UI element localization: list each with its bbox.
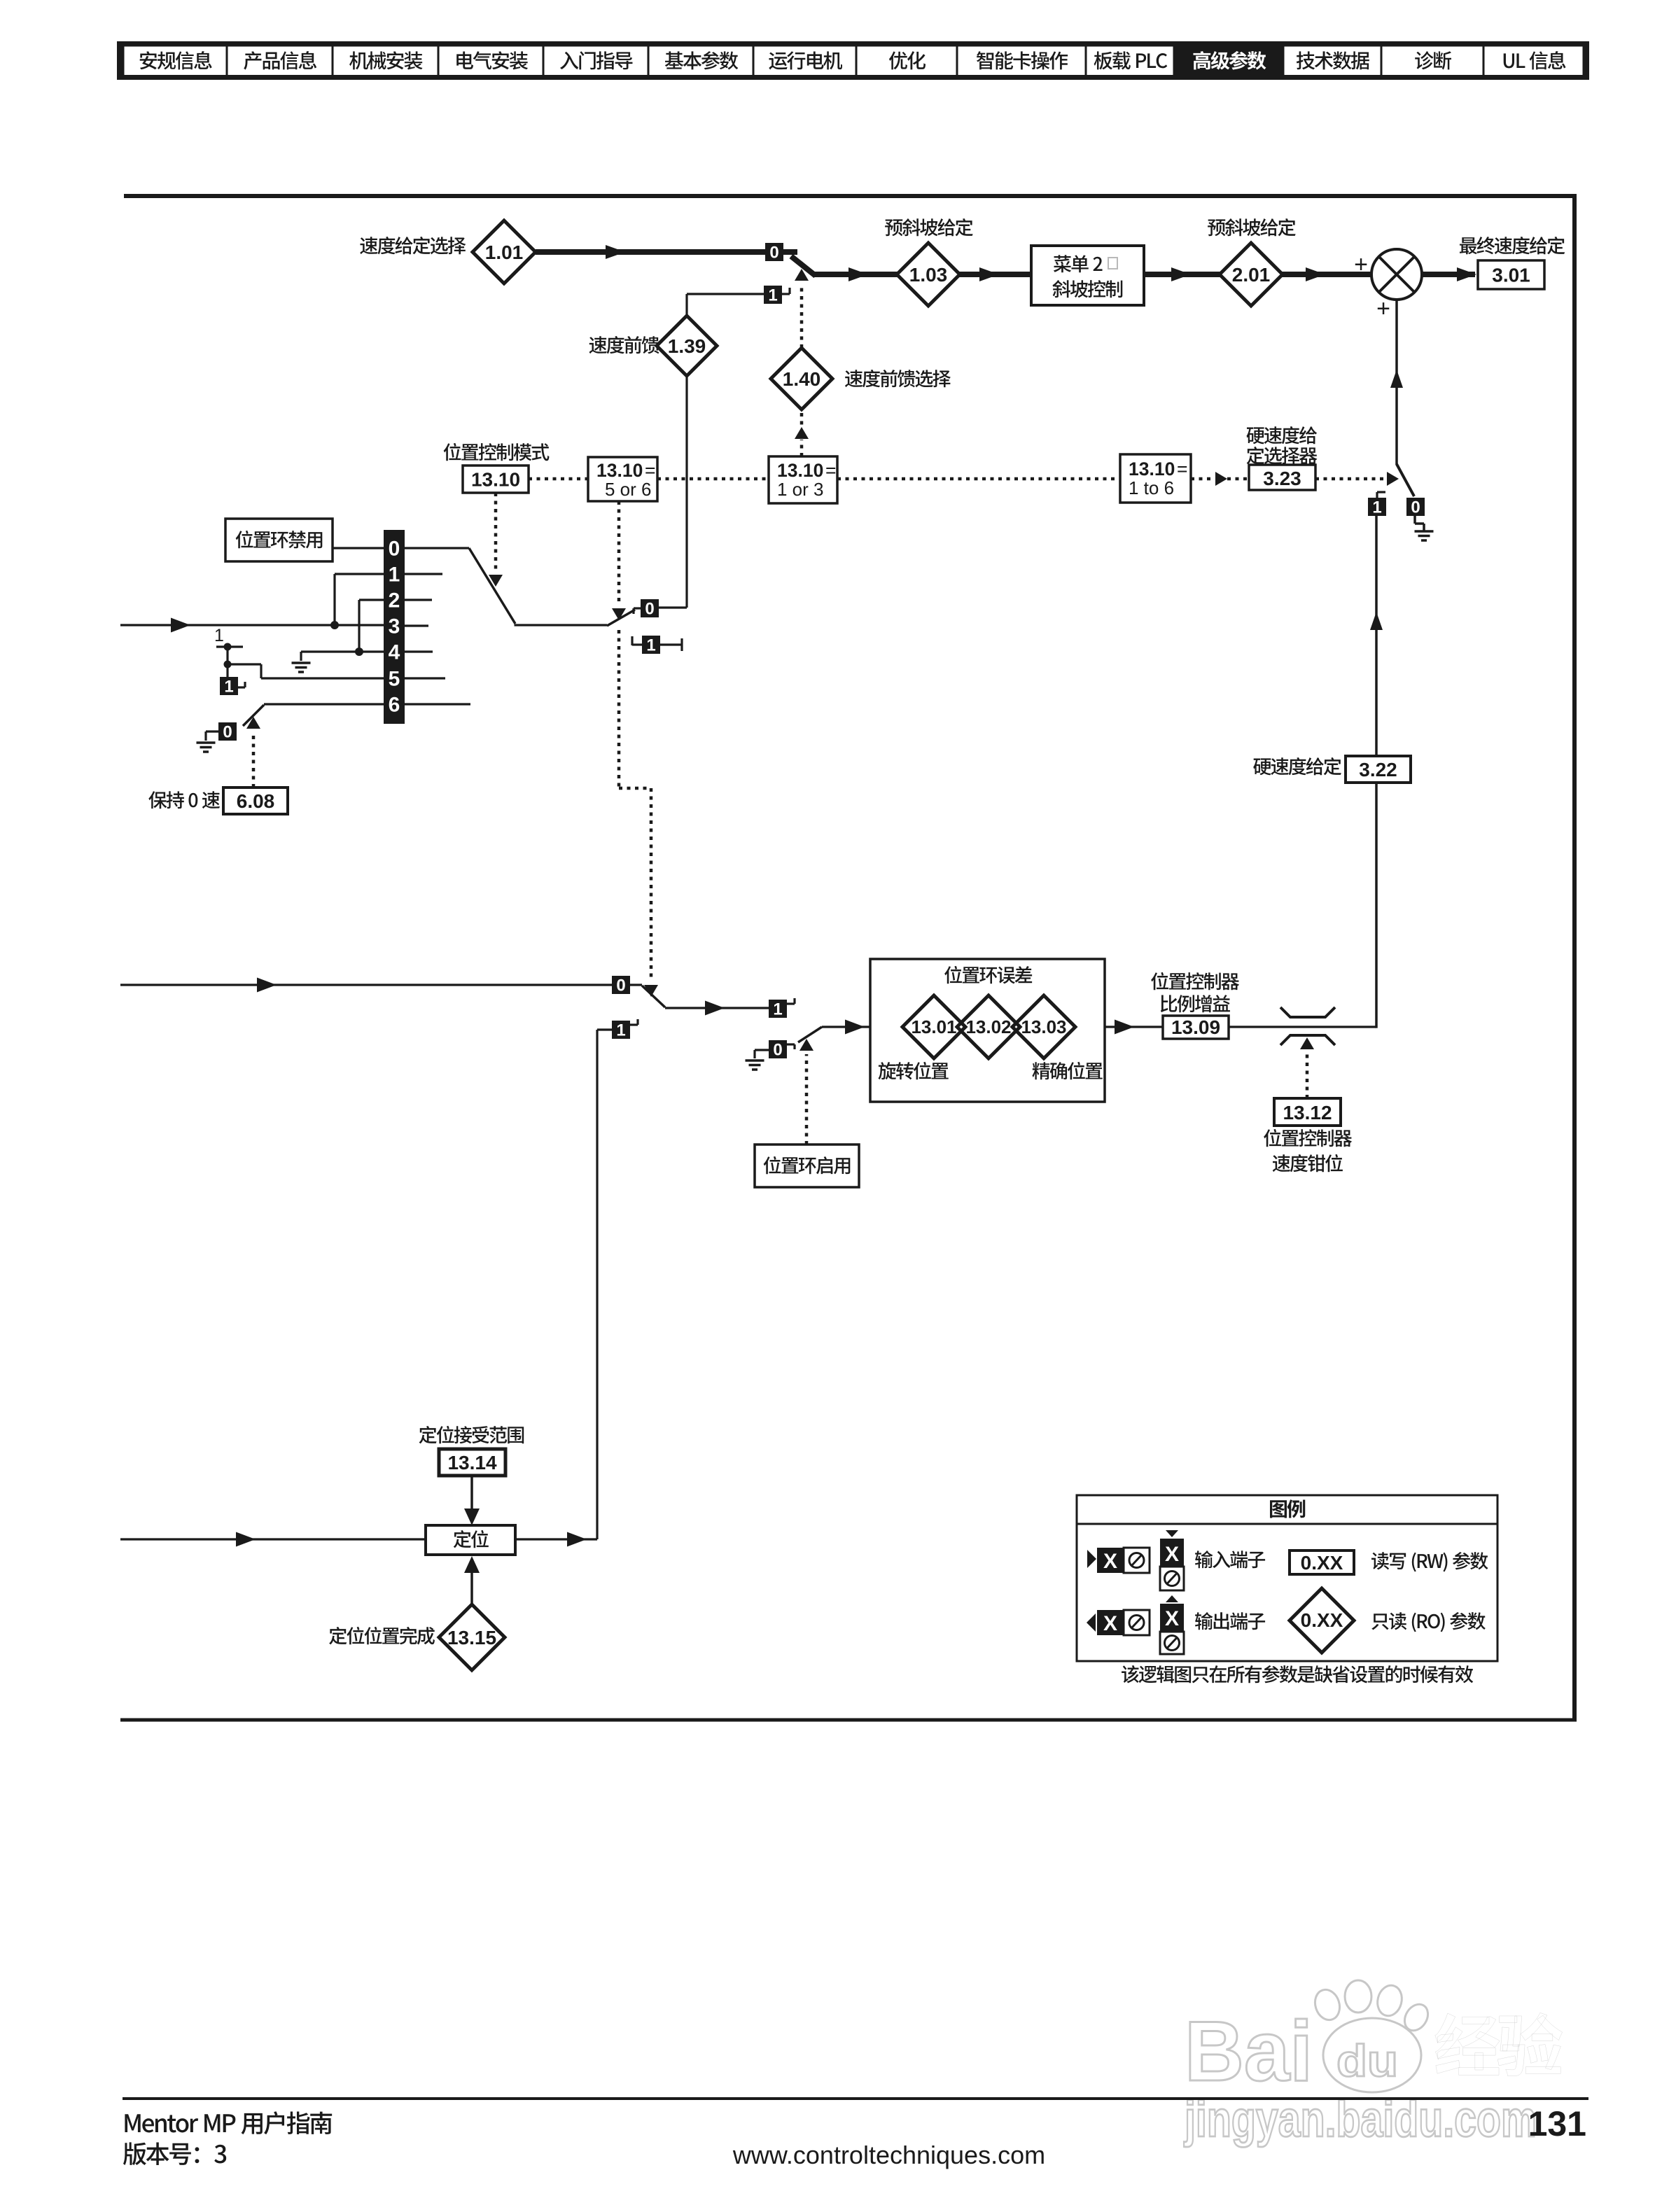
legend note [1122, 1665, 1139, 1683]
svg-text:13.12: 13.12 [1283, 1102, 1332, 1123]
svg-text:1: 1 [389, 563, 400, 587]
svg-text:13.15: 13.15 [447, 1627, 496, 1648]
legend 0.XX RO diamond [1290, 1588, 1354, 1653]
baidu watermark [1183, 1980, 1562, 2148]
dotted 1to6 to 3.23 [1191, 477, 1212, 481]
main input wire (row 3) [120, 624, 384, 626]
box 13.10 = 5 or 6 [588, 457, 657, 501]
svg-text:13.01: 13.01 [911, 1016, 956, 1037]
wire 13.09 through clamp to corner [1229, 1025, 1376, 1028]
box 13.12 position controller speed clamp [1274, 1098, 1341, 1126]
wire lever to terminal 1 [665, 1007, 769, 1009]
switch lever (hard speed) [1397, 464, 1414, 496]
dotted 5or6 down to ff switch and position switch [617, 501, 621, 605]
diamond 13.15 position complete [439, 1604, 505, 1670]
box 定位 orientating [426, 1525, 515, 1555]
svg-text:5: 5 [389, 668, 400, 691]
box 位置环禁用 position loop disabled [225, 519, 333, 561]
label 位置控制模式 [444, 443, 461, 461]
position loop error box [870, 959, 1105, 1102]
terminal 1 to long vertical (from 定位) [612, 1021, 630, 1039]
label 速度给定选择 [360, 237, 377, 254]
legend title 图例 [1270, 1500, 1287, 1518]
svg-text:1.01: 1.01 [485, 241, 524, 263]
svg-text:0: 0 [389, 538, 400, 561]
svg-text:1: 1 [768, 286, 777, 305]
legend box [1077, 1495, 1497, 1661]
switch2 terminal 1 [769, 1000, 787, 1018]
row6 wire [264, 703, 384, 705]
svg-text:13.03: 13.03 [1021, 1016, 1066, 1037]
label 定位位置完成 [329, 1627, 347, 1644]
clamp symbol [1280, 1007, 1335, 1017]
box 6.08 hold zero speed [223, 787, 288, 814]
svg-text:3.23: 3.23 [1263, 468, 1301, 489]
wire 1.01 to switch [536, 249, 765, 255]
svg-text:1: 1 [646, 636, 655, 655]
arrow 13.15 up to 定位 [470, 1573, 473, 1605]
svg-text:X: X [1103, 1612, 1117, 1635]
svg-text:=: = [645, 460, 655, 481]
svg-text:13.10: 13.10 [596, 460, 643, 481]
svg-text:2.01: 2.01 [1232, 264, 1271, 286]
label 速度前馈 [589, 336, 607, 353]
svg-text:0.XX: 0.XX [1301, 1552, 1343, 1574]
svg-text:3.01: 3.01 [1492, 265, 1530, 286]
svg-text:3: 3 [389, 615, 400, 638]
svg-text:6: 6 [389, 694, 400, 717]
wire 3.22 up to terminal 1 [1375, 516, 1378, 756]
terminal 1 box [226, 664, 228, 677]
summing junction [1371, 249, 1422, 300]
label 定位接受范围 [419, 1426, 437, 1443]
diamonds 13.01 13.02 13.03 [902, 995, 965, 1058]
legend output terminal row [1087, 1613, 1096, 1632]
svg-text:0: 0 [773, 1041, 782, 1060]
mux right side stubs rows 1-6 [405, 573, 442, 575]
mux output diagonal [469, 548, 515, 624]
dotted 6.08 up to lever [252, 734, 256, 787]
label 预斜坡给定 (2.01) [1208, 219, 1225, 236]
svg-text:0: 0 [223, 723, 232, 742]
svg-text:0: 0 [645, 600, 654, 619]
svg-text:1: 1 [616, 1021, 625, 1040]
box 13.10 = 1 or 3 [769, 456, 837, 503]
switch terminal 1 (3.22) [1368, 498, 1386, 516]
svg-text:1.03: 1.03 [909, 264, 948, 286]
wire to mux input 0 [333, 547, 384, 549]
svg-text:1: 1 [1372, 498, 1381, 517]
lever [642, 986, 665, 1007]
label 最终速度给定 [1460, 237, 1477, 254]
svg-text:5 or 6: 5 or 6 [605, 479, 652, 500]
box 13.14 position acceptance range [439, 1449, 505, 1476]
row2 wire to row4 junction [359, 598, 384, 601]
switch terminal 1 (speed feedforward) [764, 286, 782, 304]
diamond 1.39 speed feed-forward [657, 316, 717, 376]
svg-text:6.08: 6.08 [237, 790, 275, 812]
switch2 lever [798, 1027, 822, 1042]
svg-text:X: X [1165, 1607, 1179, 1630]
input wire to 定位 [120, 1538, 426, 1540]
footer rule [123, 2097, 1588, 2100]
diamond 1.03 pre-ramp reference [897, 243, 960, 306]
row4 wire with ground [301, 650, 384, 652]
dotted 1or3 to 1to6 [837, 477, 1120, 481]
wire 1.39 down to hard-speed switch 0 [685, 375, 687, 608]
output wire 定位 up to position switch [515, 1538, 597, 1540]
labels 旋转位置 / 精确位置 [878, 1062, 896, 1079]
svg-text:131: 131 [1528, 2104, 1586, 2143]
svg-text:Bai: Bai [1185, 2003, 1313, 2099]
junction row3/row1 [330, 621, 339, 629]
switch2 terminal 0 grounded [769, 1040, 787, 1058]
diagram frame border [124, 194, 1577, 198]
dotted 位置环启用 up to lever [805, 1054, 809, 1144]
svg-text:1 to 6: 1 to 6 [1129, 477, 1174, 498]
label 位置控制器/速度钳位 [1264, 1129, 1281, 1147]
svg-text:2: 2 [389, 589, 400, 612]
svg-text:13.10: 13.10 [471, 469, 520, 491]
menu 2 ramp control box [1031, 246, 1144, 305]
svg-text:13.10: 13.10 [777, 460, 823, 481]
svg-text:=: = [1177, 458, 1187, 479]
row5 wire [261, 677, 384, 679]
svg-text:13.02: 13.02 [965, 1016, 1011, 1037]
wire error box to 13.09 [1105, 1025, 1163, 1028]
svg-text:1: 1 [214, 626, 224, 645]
multiplexer black bar [384, 530, 405, 724]
terminal 0 box with ground [218, 722, 237, 741]
arrow 13.14 down to 定位 [470, 1476, 473, 1511]
dotted 3.23 to hard speed switch [1315, 477, 1383, 481]
svg-text:1.39: 1.39 [668, 335, 706, 357]
svg-text:1.40: 1.40 [783, 368, 821, 390]
svg-text:0: 0 [769, 244, 778, 262]
svg-text:www.controltechniques.com: www.controltechniques.com [732, 2141, 1045, 2169]
label 位置环误差 [944, 966, 962, 983]
svg-text:3.22: 3.22 [1359, 759, 1397, 780]
box 13.10 = 1 to 6 [1120, 454, 1191, 503]
dotted 13.10 down to mux lever [494, 493, 498, 573]
dotted 13.12 up to clamp [1306, 1053, 1309, 1098]
input wire to position switch [120, 983, 612, 986]
svg-text:1: 1 [224, 678, 233, 696]
dotted 13.10 to 5or6 [529, 477, 588, 481]
svg-text:+: + [1376, 295, 1390, 322]
dotted 1or3 box up to 1.40 [800, 440, 804, 456]
wire summing junction down to switch pivot [1395, 300, 1398, 465]
switch terminal 0 [612, 976, 630, 994]
diamond 2.01 post-ramp reference [1220, 243, 1283, 306]
svg-text:4: 4 [389, 641, 400, 664]
svg-text:0: 0 [616, 976, 625, 995]
svg-text:=: = [825, 460, 836, 481]
label 硬速度给定 [1253, 758, 1271, 775]
box 13.09 position controller P gain [1163, 1016, 1229, 1039]
wire 2.01 to summing junction [1282, 272, 1371, 277]
svg-text:0.XX: 0.XX [1301, 1609, 1343, 1631]
switch terminal 0 (speed ref) [765, 243, 783, 261]
wire switch to 1.03 [814, 272, 898, 277]
svg-text:0: 0 [1411, 498, 1420, 517]
top navigation bar [117, 41, 1589, 80]
switch lever [791, 256, 816, 276]
label 位置控制器/比例增益 [1151, 972, 1168, 990]
switch terminal 0 (grounded) [1406, 498, 1425, 516]
box 3.22 hard speed reference [1346, 756, 1411, 783]
svg-text:13.09: 13.09 [1171, 1016, 1220, 1038]
ff switch terminal 0 [641, 599, 659, 617]
svg-text:13.10: 13.10 [1129, 458, 1175, 479]
svg-text:13.14: 13.14 [447, 1452, 496, 1473]
mux output wire [405, 547, 469, 549]
wire 1.03 to ramp box [959, 272, 1031, 277]
label 硬速度给/定选择器 [1247, 427, 1265, 444]
footer text [125, 2114, 140, 2132]
svg-text:X: X [1165, 1543, 1179, 1566]
dotted 5or6 to 1or3 [657, 477, 769, 481]
diamond 1.01 speed reference selected [473, 220, 536, 283]
legend input terminal row [1087, 1550, 1096, 1568]
label 速度前馈选择 [845, 370, 863, 387]
box 3.23 hard speed reference selector [1249, 465, 1315, 490]
dotted 1.40 up to top switch [800, 284, 804, 348]
wire summing junction to 3.01 [1423, 272, 1475, 277]
wiper to ff terminal 0 [607, 610, 635, 626]
svg-text:1: 1 [773, 1000, 782, 1019]
wire ramp box to 2.01 [1144, 272, 1220, 277]
wire 3.22 down to position loop output corner [1375, 783, 1378, 1028]
wire to position error box [822, 1025, 870, 1028]
svg-text:1 or 3: 1 or 3 [777, 479, 824, 500]
ff switch terminal 1 (unconnected) [642, 636, 660, 654]
legend 0.XX RW box [1290, 1550, 1354, 1574]
diamond 1.40 speed feed-forward select [771, 348, 832, 409]
wire 1.39 up to terminal 1 [685, 294, 687, 316]
box 位置环启用 position loop enabled [755, 1144, 859, 1187]
ground for terminal 0 [1413, 516, 1416, 524]
label 保持 0 速 [148, 791, 167, 808]
box 13.10 position control mode [463, 465, 529, 493]
svg-text:du: du [1336, 2036, 1398, 2086]
label 预斜坡给定 (1.03) [885, 219, 902, 236]
lever row6 to terminal 0 [243, 705, 264, 726]
svg-text:X: X [1103, 1550, 1117, 1573]
box 3.01 final speed reference [1478, 260, 1544, 289]
svg-text:+: + [1354, 251, 1368, 278]
